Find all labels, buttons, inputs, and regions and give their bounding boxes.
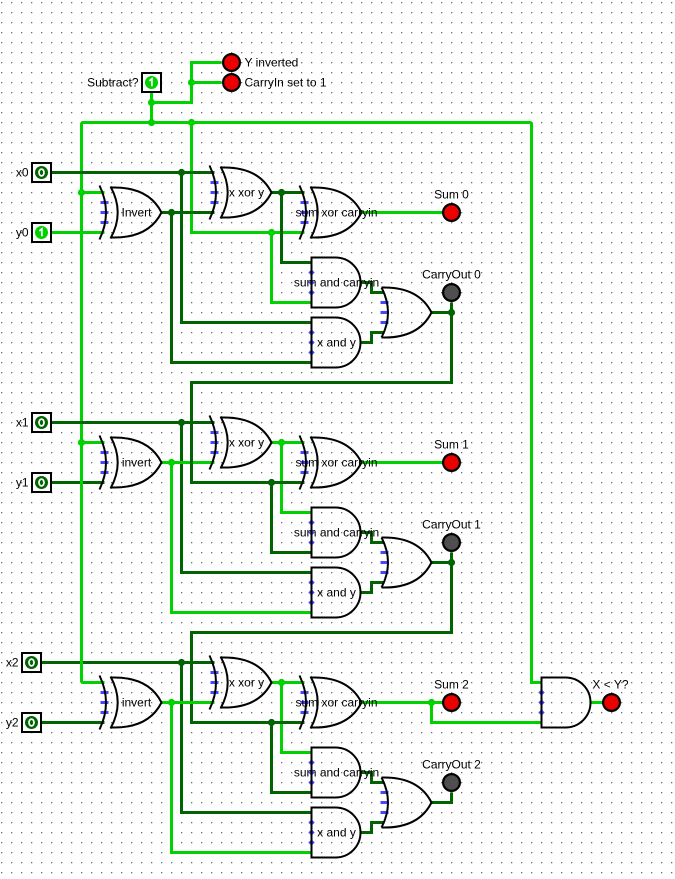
wire xand2 to or2 [362, 823, 385, 833]
junction (270,230) [268, 229, 275, 236]
wire Sum1 output [362, 461, 452, 464]
wire y-inverted2 branch [172, 703, 313, 853]
wire xxor1 branch to sum-and [282, 443, 313, 513]
XOR gate U15 sum-xor-carryin bit2 [300, 676, 362, 730]
AND gate U19 comparator X<Y [538, 678, 590, 728]
svg-text:x xor y: x xor y [229, 676, 264, 690]
svg-text:X < Y?: X < Y? [592, 678, 628, 692]
XOR gate U14 x-xor-y bit2 [210, 656, 272, 710]
svg-text:sum and carryin: sum and carryin [294, 766, 379, 780]
LED Y inverted [223, 54, 240, 71]
wire xxor0 branch to sum-and [282, 193, 313, 263]
XOR gate U3 sum-xor-carryin bit0 [300, 186, 362, 240]
wire Sum2 output [362, 701, 452, 704]
AND gate U4 sum-and-carryin bit0 [308, 258, 360, 308]
wire x1 branch to x-and-y [182, 423, 313, 573]
junction (180,660) [178, 659, 185, 666]
AND gate U16 sum-and-carryin bit2 [308, 748, 360, 798]
wire carryin bit0 [192, 123, 305, 233]
junction (180,170) [178, 169, 185, 176]
svg-text:y0: y0 [16, 226, 29, 240]
AND gate U5 x-and-y bit0 [308, 318, 360, 368]
AND gate U11 x-and-y bit1 [308, 568, 360, 618]
svg-text:y2: y2 [6, 716, 19, 730]
input pin x1 [16, 413, 51, 432]
wire y0 to invert0 [52, 231, 105, 234]
svg-text:Invert: Invert [121, 206, 152, 220]
wire x0 branch to x-and-y [182, 173, 313, 323]
wire xand1 to or1 [362, 583, 385, 593]
wire invert0 output [162, 211, 215, 214]
svg-text:CarryOut 1: CarryOut 1 [422, 518, 481, 532]
wire invert2 output [162, 701, 215, 704]
wire xxor1 output [272, 441, 305, 444]
svg-text:x xor y: x xor y [229, 436, 264, 450]
wire to CarryIn LED [192, 81, 222, 84]
svg-text:sum xor carryin: sum xor carryin [295, 206, 377, 220]
wire sumand2 to or2 [362, 773, 385, 783]
svg-text:Subtract?: Subtract? [87, 76, 139, 90]
svg-text:Sum 0: Sum 0 [434, 188, 469, 202]
wire xxor2 output [272, 681, 305, 684]
wire Sum2 to comparator [432, 703, 543, 723]
OR gate U6 carryout bit0 [381, 287, 432, 337]
LED Sum 1 [443, 454, 460, 471]
svg-text:Sum 2: Sum 2 [434, 678, 469, 692]
wire sumand1 to or1 [362, 533, 385, 543]
junction (170,210) [168, 209, 175, 216]
AND gate U17 x-and-y bit2 [308, 808, 360, 858]
svg-text:sum xor carryin: sum xor carryin [295, 696, 377, 710]
wire to Y inverted LED [152, 63, 222, 103]
AND gate U10 sum-and-carryin bit1 [308, 508, 360, 558]
svg-text:x and y: x and y [317, 336, 356, 350]
wire x1 net [52, 421, 215, 424]
wire right vertical x=530 to comparator [532, 123, 543, 683]
wire invert0 top input [82, 191, 105, 194]
svg-text:CarryOut 2: CarryOut 2 [422, 758, 481, 772]
junction (190,80) [188, 79, 195, 86]
LED CarryOut 1 [443, 534, 460, 551]
wire y-inverted0 branch [172, 213, 313, 363]
input pin Subtract? [87, 73, 161, 92]
wire comparator output to X<Y LED [592, 701, 603, 704]
LED Sum 0 [443, 204, 460, 221]
wire carryin bit1 branch to sum-and [272, 483, 313, 553]
junction (180,420) [178, 419, 185, 426]
wire or0 to CarryOut0 LED [432, 303, 452, 313]
wire Subtract vertical x=150 [150, 93, 153, 123]
wire Sum0 output [362, 211, 452, 214]
wire carry chain bit1 to bit2 [192, 563, 452, 723]
XOR gate U9 sum-xor-carryin bit1 [300, 436, 362, 490]
LED Sum 2 [443, 694, 460, 711]
wire y-inverted1 branch [172, 463, 313, 613]
wire invert1 output [162, 461, 215, 464]
wire sumand0 to or0 [362, 283, 385, 293]
LED CarryOut 0 [443, 284, 460, 301]
wire invert2 top input [82, 681, 105, 684]
svg-text:x0: x0 [16, 166, 29, 180]
XOR gate U1 Invert bit0 [100, 186, 162, 240]
junction (170,700) [168, 699, 175, 706]
junction (150,120) [148, 119, 155, 126]
XOR gate U2 x-xor-y bit0 [210, 166, 272, 220]
input pin x0 [16, 163, 51, 182]
junction (450,560) [448, 559, 455, 566]
svg-text:sum xor carryin: sum xor carryin [295, 456, 377, 470]
svg-text:invert: invert [122, 456, 152, 470]
svg-text:x2: x2 [6, 656, 19, 670]
junction (80,440) [78, 439, 85, 446]
svg-text:Sum 1: Sum 1 [434, 438, 469, 452]
wire x0 net [52, 171, 215, 174]
svg-text:CarryOut 0: CarryOut 0 [422, 268, 481, 282]
input pin y0 [16, 223, 51, 242]
svg-text:CarryIn set to 1: CarryIn set to 1 [245, 76, 327, 90]
junction (450,310) [448, 309, 455, 316]
junction (280,680) [278, 679, 285, 686]
svg-text:invert: invert [122, 696, 152, 710]
junction (270,720) [268, 719, 275, 726]
wire carry chain bit0 to bit1 [192, 313, 452, 483]
LED CarryOut 2 [443, 774, 460, 791]
wire xand0 to or0 [362, 333, 385, 343]
wire top horizontal y=120 [82, 121, 532, 124]
svg-text:sum and carryin: sum and carryin [294, 276, 379, 290]
input pin x2 [6, 653, 41, 672]
junction (150,100) [148, 99, 155, 106]
wire x2 net [42, 661, 215, 664]
junction (270,480) [268, 479, 275, 486]
junction (430,700) [428, 699, 435, 706]
wire left vertical x=80 [80, 123, 83, 683]
junction (170,460) [168, 459, 175, 466]
svg-text:y1: y1 [16, 476, 29, 490]
svg-text:x and y: x and y [317, 826, 356, 840]
LED CarryIn set to 1 [223, 74, 240, 91]
OR gate U18 carryout bit2 [381, 777, 432, 827]
wire or2 to CarryOut2 LED [432, 793, 452, 803]
XOR gate U8 x-xor-y bit1 [210, 416, 272, 470]
wire xxor2 branch to sum-and [282, 683, 313, 753]
wire xxor0 output [272, 191, 305, 194]
LED X < Y? [603, 694, 620, 711]
wire invert1 top input [82, 441, 105, 444]
wire or1 to CarryOut1 LED [432, 553, 452, 563]
svg-text:x xor y: x xor y [229, 186, 264, 200]
input pin y2 [6, 713, 41, 732]
svg-text:sum and carryin: sum and carryin [294, 526, 379, 540]
input pin y1 [16, 473, 51, 492]
OR gate U12 carryout bit1 [381, 537, 432, 587]
wire x2 branch to x-and-y [182, 663, 313, 813]
junction (280,440) [278, 439, 285, 446]
svg-text:x and y: x and y [317, 586, 356, 600]
XOR gate U7 invert bit1 [100, 436, 162, 490]
wire y2 to invert2 [42, 721, 105, 724]
junction (190,120) [188, 119, 195, 126]
junction (80,190) [78, 189, 85, 196]
wire carryin bit0 branch to sum-and [272, 233, 313, 303]
svg-text:Y inverted: Y inverted [245, 56, 299, 70]
XOR gate U13 invert bit2 [100, 676, 162, 730]
wire carryin bit2 branch to sum-and [272, 723, 313, 793]
junction (280,190) [278, 189, 285, 196]
wire y1 to invert1 [52, 481, 105, 484]
svg-text:x1: x1 [16, 416, 29, 430]
